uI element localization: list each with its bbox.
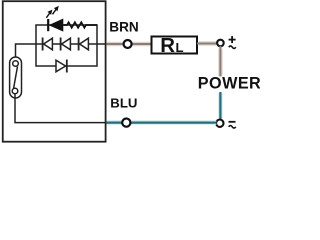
- svg-text:L: L: [176, 40, 184, 55]
- wire RL to plus terminal (brown): [197, 43, 218, 45]
- wire BRN lead (brown): [106, 43, 151, 45]
- label RL: [160, 35, 183, 57]
- LED emission arrow 2: [53, 6, 59, 14]
- diode D1 (middle branch, points left): [43, 38, 53, 51]
- svg-text:BLU: BLU: [110, 95, 137, 110]
- svg-text:POWER: POWER: [198, 75, 260, 93]
- wire supply negative drop halo: [218, 93, 223, 118]
- wire RL to plus terminal halo: [199, 41, 217, 45]
- wire BLU lead (blue): [106, 121, 216, 123]
- diode D2 (middle branch, points left): [61, 38, 71, 51]
- wire BRN lead halo: [107, 42, 151, 46]
- LED emission arrow 1: [46, 10, 52, 18]
- label minus over tilde: [229, 122, 236, 128]
- load resistor RL box: [152, 37, 198, 54]
- resistor (internal, zigzag): [64, 22, 98, 28]
- terminal BRN: [124, 40, 132, 48]
- LED indicator: [48, 19, 63, 31]
- diode D4 (bottom branch, points right): [56, 60, 67, 73]
- svg-text:R: R: [160, 35, 175, 57]
- terminal BLU: [122, 119, 130, 127]
- wire supply positive drop (brown): [219, 46, 221, 77]
- output switch (in stadium outline): [10, 57, 22, 98]
- wire supply negative drop (blue): [219, 92, 221, 120]
- svg-text:BRN: BRN: [109, 19, 138, 34]
- wire internal bottom run: [14, 122, 105, 124]
- wire switch bottom lead: [14, 94, 16, 123]
- wire BLU lead halo: [107, 120, 216, 125]
- wire middle branch: [16, 43, 106, 45]
- diode D3 (middle branch, points left): [79, 38, 89, 51]
- terminal minus: [216, 120, 223, 127]
- wire internal loop rectangle: [36, 25, 97, 66]
- wire supply positive drop halo: [218, 49, 222, 77]
- terminal plus: [217, 40, 224, 47]
- label plus over tilde: [229, 36, 236, 48]
- sensor outline box: [3, 1, 106, 142]
- wire switch top lead: [15, 43, 17, 61]
